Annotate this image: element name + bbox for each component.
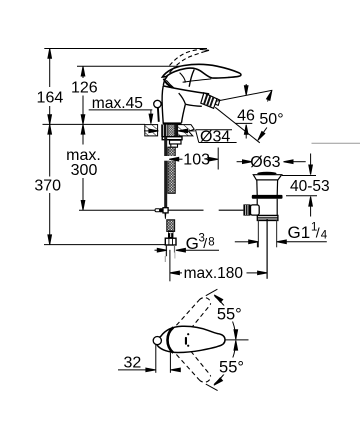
dimension G3/8 arrows [155, 248, 220, 252]
aerator stripe 3 [209, 97, 214, 108]
handle curl inner line [166, 80, 174, 88]
label G3/8 [186, 233, 215, 254]
handle curl shading [164, 79, 173, 88]
svg-text:55°: 55° [219, 358, 244, 376]
dimension max.45 (deck thickness) [89, 95, 153, 123]
knurled knob on waste [243, 204, 250, 215]
dimension 103 [164, 148, 219, 170]
label G1 1/4 [288, 222, 328, 242]
faucet dome left edge [163, 78, 166, 86]
locknut 2 [170, 140, 182, 144]
shank bars in deck hole [161, 124, 177, 136]
svg-text:40-53: 40-53 [290, 178, 330, 195]
horizontal rod right [168, 209, 203, 211]
dome seam line [183, 79, 212, 82]
deck reference line [43, 123, 146, 125]
spout underside bulge [179, 93, 186, 104]
locknut 1 [162, 137, 182, 140]
waste nut [257, 215, 278, 220]
aerator tip [215, 99, 219, 106]
top view: body outline [157, 326, 225, 352]
svg-text:300: 300 [71, 162, 98, 179]
dimension 126 [71, 66, 98, 124]
svg-text:4: 4 [321, 230, 328, 242]
dimension 46 [235, 84, 255, 139]
pop-up knob [154, 100, 161, 107]
svg-text:164: 164 [37, 89, 64, 106]
svg-text:32: 32 [124, 354, 142, 371]
axis extension upper [206, 289, 218, 296]
svg-text:Ø34: Ø34 [200, 128, 230, 145]
svg-text:126: 126 [71, 80, 98, 97]
dome bottom rim / spout top edge [163, 86, 209, 94]
top view: 55 degree arcs [213, 294, 238, 387]
deck hatched block right with break [178, 125, 195, 136]
svg-text:55°: 55° [217, 306, 242, 324]
horizontal rod left / max300 extension [79, 209, 155, 211]
top view: pop-up knob circle [153, 337, 161, 345]
dimension 370 [34, 124, 61, 244]
extension line top (handle max height) [44, 48, 207, 50]
svg-text:103: 103 [183, 152, 210, 169]
body right edge [182, 105, 186, 123]
svg-text:370: 370 [34, 178, 61, 195]
waste body lower walls [256, 199, 258, 216]
svg-text:/: / [203, 235, 207, 251]
svg-text:/: / [316, 224, 320, 240]
spout bottom edge [186, 104, 202, 106]
G3/8 hex nut [165, 238, 176, 245]
supply pipe stubs [165, 245, 175, 262]
dashed raised handle upper edge [170, 49, 204, 65]
label Ø34 [196, 128, 237, 145]
dimension G1 1/4 [235, 240, 327, 247]
rod connector block [163, 208, 168, 213]
svg-text:8: 8 [208, 237, 214, 249]
ball joint housing [251, 205, 260, 215]
dimension 32 [118, 345, 180, 373]
waste seal O-ring [252, 195, 283, 199]
pop-up waste cap (black top) [257, 172, 276, 175]
55 deg text masks [214, 306, 244, 322]
aerator stripe 1 [203, 94, 208, 105]
bottom reference line [44, 244, 166, 246]
dashed raised handle lower edge [172, 52, 203, 70]
top view: handle centerline [225, 339, 248, 341]
pop-up vertical rod [164, 137, 167, 208]
raised handle solid tip [202, 50, 210, 53]
body left edge [162, 86, 163, 124]
aerator stripe 2 [206, 95, 211, 106]
extension line handle closed height [77, 65, 181, 67]
leader ray B [215, 107, 260, 143]
top view: handle marks [185, 333, 189, 347]
dimension 40-53 [282, 143, 360, 216]
waste body upper walls [256, 180, 258, 195]
svg-text:46: 46 [237, 107, 255, 124]
flexible hose upper [168, 147, 175, 193]
dashed raised handle back edge [165, 70, 172, 80]
top view: dashed handle rotated up [176, 298, 210, 329]
svg-text:G1: G1 [288, 223, 311, 242]
deck hatched block left [145, 125, 158, 136]
svg-text:max.180: max.180 [184, 265, 244, 282]
svg-text:Ø63: Ø63 [250, 154, 280, 171]
threaded shank [168, 124, 175, 136]
rod end cap [155, 209, 160, 212]
waste tailpipe [257, 221, 259, 248]
handle pivot hook line [180, 73, 186, 83]
dimension Ø34 arrows at mounting hole [144, 129, 195, 133]
flexible hose lower [167, 220, 175, 232]
pop-up knob stem [157, 108, 160, 122]
dimension max.180 [170, 250, 267, 282]
svg-text:50°: 50° [259, 111, 283, 128]
rod connector ferrule [160, 208, 163, 212]
dimension Ø63 [237, 154, 306, 171]
dimension max.300 [66, 124, 101, 210]
dimension 50 degrees [256, 90, 283, 141]
G3/8 tee fitting [168, 231, 173, 238]
body base dark band [163, 122, 182, 124]
top view: dashed handle rotated down [176, 351, 210, 382]
spout axis ray A [216, 90, 272, 101]
dimension 164 [37, 49, 64, 125]
drain axis line [266, 219, 268, 279]
faucet handle (solid, closed) [162, 64, 241, 78]
hose fitting [171, 144, 178, 147]
axis extension lower [206, 384, 218, 391]
faucet dome right edge [189, 70, 194, 87]
pop-up rod lower tip [165, 213, 167, 220]
aerator body [201, 93, 217, 109]
top view: cartridge dome arc [167, 327, 173, 352]
waste cap flange [253, 175, 281, 180]
